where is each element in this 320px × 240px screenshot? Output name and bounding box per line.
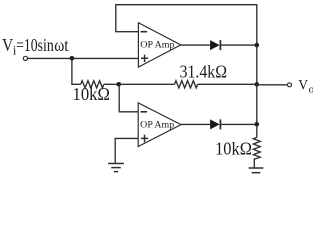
ground G2 [249, 168, 264, 173]
ground G1 [108, 164, 124, 172]
op-amp U2 plus mark [141, 135, 148, 143]
wire U2 output to diode D2 [181, 123, 210, 125]
op-amp U2 minus mark [141, 111, 147, 113]
op-amp U1 triangle [138, 23, 180, 67]
svg-text:31.4kΩ: 31.4kΩ [180, 61, 227, 81]
rail wire node C to node D [256, 45, 258, 84]
svg-text:V: V [298, 78, 308, 94]
resistor R1 10kΩ zigzag [81, 81, 104, 88]
junction node E [254, 122, 259, 127]
svg-text:10kΩ: 10kΩ [215, 138, 252, 158]
svg-text:=10sin: =10sin [16, 35, 54, 55]
wire node B down to U2 inverting input [119, 84, 138, 112]
wire node D to output terminal [257, 84, 288, 86]
diode D1 cathode bar [219, 40, 221, 50]
wire node A down to R1 [72, 58, 81, 84]
wire U2 + input to ground G1 [115, 138, 138, 163]
junction node C [254, 43, 259, 48]
op-amp U1 minus mark [141, 31, 147, 33]
junction node A [70, 56, 75, 61]
svg-text:o: o [309, 84, 313, 96]
input terminal circle [23, 56, 27, 60]
junction node D [254, 82, 259, 87]
wire U1 output to diode D1 [181, 44, 210, 46]
rail wire node D to node E [256, 84, 258, 124]
wire node E to R3 [256, 124, 258, 137]
resistor R2 31.4kΩ zigzag [175, 81, 198, 88]
label input Vi=10sinωt [2, 35, 69, 58]
svg-text:10kΩ: 10kΩ [73, 84, 110, 104]
svg-text:ωt: ωt [54, 35, 68, 55]
svg-text:OP Amp: OP Amp [140, 119, 174, 130]
svg-text:OP Amp: OP Amp [140, 40, 174, 51]
wire R1 to node B [104, 83, 119, 85]
wire R2 to output node D [198, 83, 257, 85]
wire input terminal to op-amp U1 + input [28, 57, 139, 59]
op-amp U1 plus mark [141, 55, 148, 63]
diode D2 cathode bar [219, 119, 221, 129]
resistor R3 10kΩ zigzag [253, 137, 260, 159]
wire D2 to node E [221, 123, 256, 125]
wire R3 to ground G2 [253, 158, 255, 167]
label output Vo [298, 78, 314, 96]
svg-text:V: V [2, 35, 13, 55]
wire node B to R2 [119, 83, 175, 85]
junction node B [117, 82, 122, 87]
op-amp U2 triangle [138, 103, 181, 147]
feedback wire U1 inverting input to output rail [116, 5, 257, 45]
output terminal circle [288, 83, 292, 87]
diode D2 [210, 119, 220, 129]
wire D1 to node C [221, 44, 256, 46]
diode D1 [210, 40, 220, 50]
